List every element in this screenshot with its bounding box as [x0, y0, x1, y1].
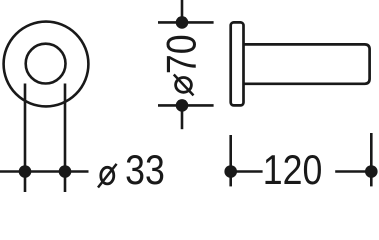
- wire: ø70 bottom tick: [158, 104, 214, 107]
- svg-text:33: 33: [125, 147, 165, 192]
- cylinder body (side view): [244, 44, 370, 83]
- outer circle (rosette ø70 front view): [4, 22, 89, 107]
- inner circle (knob ø33 front view): [26, 44, 66, 84]
- wire: ø70 top extension line: [181, 0, 184, 22]
- node: ø33 left dimension dot: [19, 165, 32, 178]
- svg-text:120: 120: [263, 147, 323, 192]
- node: ø70 top dimension dot: [176, 16, 189, 29]
- value label ø (of ø 33): [98, 164, 117, 188]
- wire: 120 dimension line left segment: [231, 170, 263, 173]
- node: 120 left dimension dot: [224, 165, 237, 178]
- node: 120 right dimension dot: [365, 165, 378, 178]
- wire: 120 left extension line: [229, 135, 232, 186]
- node: ø33 right dimension dot: [59, 165, 72, 178]
- wire: ø33 left extension line: [24, 84, 27, 193]
- wire: ø33 dimension line: [0, 170, 89, 173]
- wire: ø33 right extension line: [64, 84, 67, 193]
- wire: 120 dimension line right segment: [335, 170, 371, 173]
- wire: ø70 top tick: [158, 21, 214, 24]
- wire: 120 right extension line: [370, 133, 373, 186]
- flange plate (side view): [231, 22, 244, 105]
- svg-text:70: 70: [159, 34, 205, 74]
- wire: ø70 bottom extension line: [181, 105, 184, 129]
- node: ø70 bottom dimension dot: [176, 99, 189, 112]
- value label ø (of ø 70, rotated): [174, 75, 194, 96]
